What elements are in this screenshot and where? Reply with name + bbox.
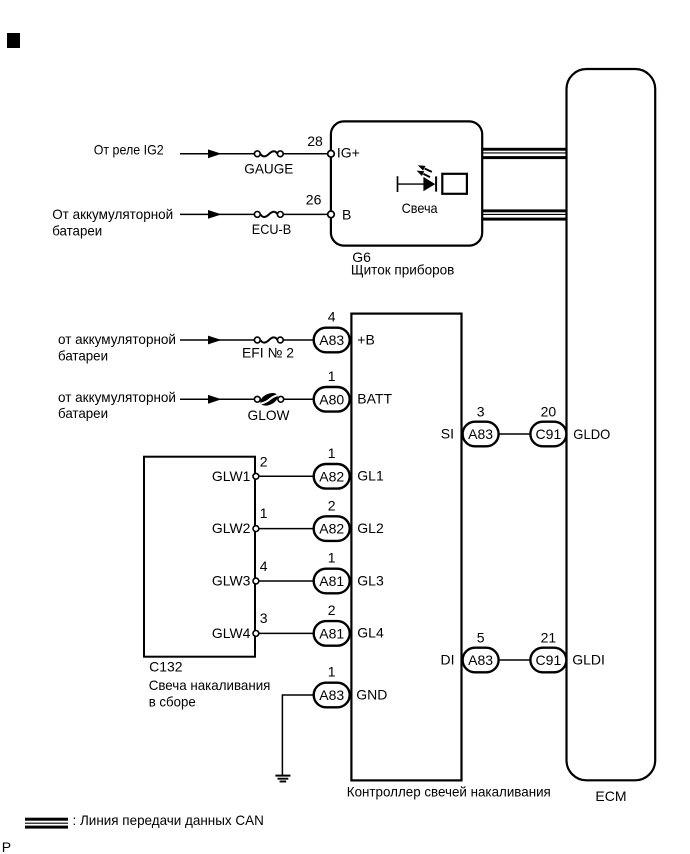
connector A80 pin 1 (BATT) bbox=[314, 368, 393, 412]
glow plug controller box bbox=[351, 314, 461, 781]
svg-text:GLDI: GLDI bbox=[572, 651, 605, 667]
svg-text:GL3: GL3 bbox=[357, 572, 384, 588]
wire fuse ECU-B to pin 26 bbox=[283, 213, 328, 215]
svg-text:в сборе: в сборе bbox=[149, 693, 196, 709]
svg-text:Свеча: Свеча bbox=[402, 200, 438, 216]
svg-text:От реле IG2: От реле IG2 bbox=[94, 142, 164, 158]
wire GLW4 to GL4 bbox=[256, 632, 314, 634]
wire from relay IG2 bbox=[180, 153, 255, 155]
svg-text:BATT: BATT bbox=[357, 391, 392, 407]
svg-text:GL2: GL2 bbox=[357, 520, 384, 536]
corner mark (top-left) bbox=[7, 33, 20, 48]
fuse EFI № 2 bbox=[242, 337, 294, 360]
svg-text:A82: A82 bbox=[319, 521, 344, 537]
block G6 instrument panel outline bbox=[331, 121, 482, 245]
svg-text:GLW3: GLW3 bbox=[212, 573, 251, 589]
svg-text:A82: A82 bbox=[319, 468, 344, 484]
svg-text:батареи: батареи bbox=[58, 405, 108, 421]
fuse ECU-B bbox=[252, 212, 292, 238]
connector A82 pin 1 (GL1) bbox=[314, 445, 384, 489]
svg-text:+B: +B bbox=[357, 331, 375, 347]
connector A81 pin 1 (GL3) bbox=[314, 550, 384, 594]
arrowhead row GLOW bbox=[208, 395, 222, 404]
svg-text:ECU-B: ECU-B bbox=[252, 221, 292, 237]
pin 28 IG+ bbox=[307, 133, 360, 161]
svg-text:20: 20 bbox=[541, 404, 557, 420]
connector A82 pin 2 (GL2) bbox=[314, 497, 384, 541]
svg-text:A83: A83 bbox=[468, 426, 493, 442]
wire fuse GAUGE to pin 28 bbox=[283, 153, 328, 155]
wire battery to fusible link GLOW bbox=[180, 398, 255, 400]
svg-text:батареи: батареи bbox=[52, 222, 102, 238]
pin GLW4 (3) bbox=[212, 610, 268, 641]
svg-text:3: 3 bbox=[260, 610, 268, 626]
connector A83 pin 5 (DI) bbox=[441, 629, 499, 672]
pin GLW2 (1) bbox=[212, 505, 268, 536]
connector C91 pin 21 (GLDI) bbox=[530, 629, 604, 672]
wire DI: A83 to C91 bbox=[499, 659, 531, 661]
svg-text:21: 21 bbox=[541, 629, 557, 645]
ground wire from GND connector bbox=[282, 695, 314, 775]
fusible link GLOW bbox=[248, 390, 291, 423]
svg-text:GLDO: GLDO bbox=[573, 426, 610, 442]
svg-text:От аккумуляторной: От аккумуляторной bbox=[52, 206, 173, 222]
svg-text:1: 1 bbox=[328, 550, 336, 566]
svg-text:4: 4 bbox=[328, 309, 336, 325]
svg-text:28: 28 bbox=[307, 133, 323, 149]
svg-text:DI: DI bbox=[441, 652, 455, 668]
svg-text:A80: A80 bbox=[319, 391, 344, 407]
wire SI: A83 to C91 bbox=[499, 433, 531, 435]
svg-text:от аккумуляторной: от аккумуляторной bbox=[58, 331, 176, 347]
svg-text:C91: C91 bbox=[536, 652, 562, 668]
svg-text:SI: SI bbox=[441, 426, 454, 442]
svg-text:GAUGE: GAUGE bbox=[244, 160, 293, 176]
svg-text:батареи: батареи bbox=[58, 347, 108, 363]
connector A83 pin 3 (SI) bbox=[441, 404, 499, 447]
svg-text:5: 5 bbox=[477, 629, 485, 645]
LED indicator lamp Свеча bbox=[398, 165, 467, 216]
wire GLW2 to GL2 bbox=[256, 528, 314, 530]
wire GLW3 to GL3 bbox=[256, 580, 314, 582]
svg-text:A83: A83 bbox=[468, 652, 493, 668]
svg-text:GL4: GL4 bbox=[357, 625, 384, 641]
label G6 bbox=[351, 249, 455, 278]
svg-text:GL1: GL1 bbox=[357, 468, 384, 484]
svg-text:Свеча накаливания: Свеча накаливания bbox=[149, 677, 271, 693]
wire fuse EFI to connector A83 bbox=[283, 339, 314, 341]
svg-text:2: 2 bbox=[260, 454, 268, 470]
svg-text:A81: A81 bbox=[319, 625, 344, 641]
wire fusible link to connector A80 bbox=[284, 398, 314, 400]
svg-text:1: 1 bbox=[328, 445, 336, 461]
node: от аккумуляторной батареи (row +B) bbox=[58, 331, 176, 364]
svg-text:от аккумуляторной: от аккумуляторной bbox=[58, 389, 176, 405]
CAN bus 2 (B row) bbox=[482, 209, 567, 220]
wire battery to fuse EFI bbox=[180, 339, 255, 341]
svg-text:A83: A83 bbox=[319, 687, 344, 703]
legend CAN bus symbol bbox=[25, 818, 68, 829]
arrowhead row ECU-B bbox=[208, 210, 222, 219]
wire GLW1 to GL1 bbox=[256, 475, 314, 477]
pin GLW1 (2) bbox=[212, 454, 268, 484]
svg-text:B: B bbox=[342, 206, 351, 222]
svg-text:GLOW: GLOW bbox=[248, 407, 291, 423]
node: от аккумуляторной батареи (row BATT) bbox=[58, 389, 176, 421]
svg-text:: Линия передачи данных CAN: : Линия передачи данных CAN bbox=[73, 812, 264, 828]
fuse GAUGE bbox=[244, 151, 293, 176]
node: От аккумуляторной батареи (row B) bbox=[52, 206, 173, 239]
svg-text:A83: A83 bbox=[319, 332, 344, 348]
block C132 glow plug assembly bbox=[144, 457, 255, 657]
svg-text:GLW2: GLW2 bbox=[212, 520, 251, 536]
label C132 bbox=[149, 658, 271, 709]
svg-text:Щиток приборов: Щиток приборов bbox=[351, 262, 455, 278]
svg-text:IG+: IG+ bbox=[337, 145, 360, 161]
arrowhead row EFI bbox=[208, 336, 222, 345]
svg-text:1: 1 bbox=[328, 664, 336, 680]
svg-text:1: 1 bbox=[260, 505, 268, 521]
svg-text:GLW4: GLW4 bbox=[212, 625, 251, 641]
svg-text:ECM: ECM bbox=[595, 788, 626, 804]
svg-text:26: 26 bbox=[306, 191, 322, 207]
svg-text:C132: C132 bbox=[149, 658, 183, 674]
svg-text:1: 1 bbox=[328, 368, 336, 384]
connector A81 pin 2 (GL4) bbox=[314, 602, 384, 646]
pin GLW3 (4) bbox=[212, 558, 268, 589]
connector A83 pin 1 (GND) bbox=[314, 664, 388, 708]
svg-text:EFI № 2: EFI № 2 bbox=[242, 344, 294, 360]
arrowhead row IG2 bbox=[208, 149, 222, 158]
svg-text:C91: C91 bbox=[536, 426, 562, 442]
connector C91 pin 20 (GLDO) bbox=[530, 404, 610, 447]
svg-text:A81: A81 bbox=[319, 573, 344, 589]
wire from battery to fuse ECU-B bbox=[180, 213, 255, 215]
ECM box bbox=[567, 69, 656, 804]
svg-text:GLW1: GLW1 bbox=[212, 468, 251, 484]
ground symbol bbox=[275, 776, 290, 782]
connector A83 pin 4 (+B) bbox=[314, 309, 375, 353]
svg-text:2: 2 bbox=[328, 602, 336, 618]
svg-text:P: P bbox=[2, 839, 11, 854]
svg-text:4: 4 bbox=[260, 558, 268, 574]
CAN bus 1 (IG+ row) bbox=[482, 148, 567, 159]
svg-text:Контроллер свечей накаливания: Контроллер свечей накаливания bbox=[347, 784, 551, 800]
pin 26 B bbox=[306, 191, 352, 222]
svg-text:GND: GND bbox=[356, 686, 387, 702]
svg-text:2: 2 bbox=[328, 497, 336, 513]
svg-text:3: 3 bbox=[477, 404, 485, 420]
